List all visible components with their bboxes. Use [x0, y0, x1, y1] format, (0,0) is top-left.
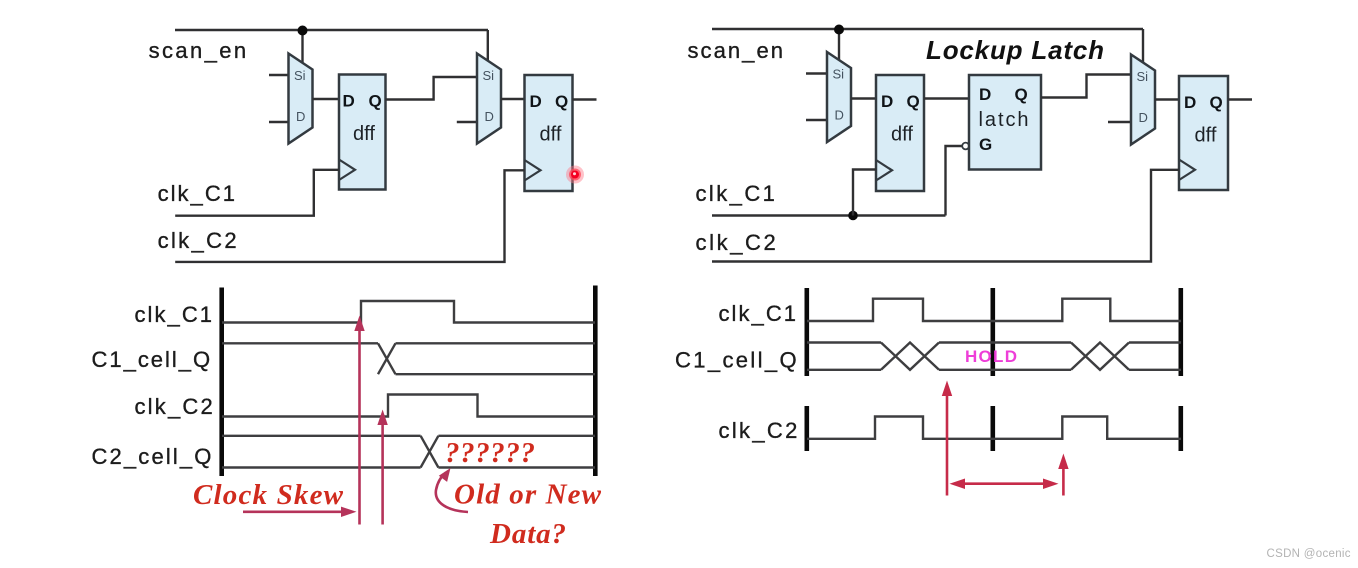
- svg-text:D: D: [296, 109, 305, 124]
- wire D input stub U8: [1108, 121, 1131, 123]
- node scan_en junction (right): [834, 25, 844, 35]
- waveform clk_C1 (right): [807, 299, 1181, 321]
- timeline bar right: [593, 286, 598, 477]
- svg-text:Q: Q: [369, 92, 382, 111]
- node clk_C1 junction: [848, 211, 858, 221]
- wire U8 output to U9 D: [1155, 98, 1179, 100]
- svg-text:Q: Q: [555, 92, 568, 111]
- svg-text:D: D: [530, 92, 542, 111]
- svg-text:Old or New: Old or New: [454, 479, 602, 511]
- mux U1: [289, 54, 313, 144]
- waveform C1_cell_Q rails segment 3: [1129, 343, 1181, 370]
- timeline bar left bottom: [804, 406, 809, 451]
- svg-text:dff: dff: [540, 124, 562, 146]
- arrow skew at clk_C1 edge: [354, 316, 364, 525]
- svg-text:latch: latch: [979, 109, 1029, 131]
- svg-text:C2_cell_Q: C2_cell_Q: [92, 444, 212, 469]
- wire latch Q to mux U8 Si: [1041, 75, 1131, 98]
- waveform C1_cell_Q new value rails: [396, 343, 596, 374]
- svg-text:Si: Si: [483, 68, 495, 83]
- svg-text:Lockup Latch: Lockup Latch: [926, 35, 1104, 65]
- svg-text:D: D: [881, 92, 893, 111]
- svg-text:Data?: Data?: [489, 518, 566, 550]
- timeline bar left: [219, 288, 224, 477]
- svg-text:HOLD: HOLD: [965, 347, 1017, 366]
- wire U3 output to U4 D: [501, 98, 525, 100]
- wire U1 output to U2 D: [313, 98, 340, 100]
- arrow clock skew horizontal: [243, 507, 357, 517]
- timeline bar right bottom: [1179, 406, 1184, 451]
- arrow hold short vertical: [1058, 454, 1068, 496]
- waveform C1_cell_Q transition X: [378, 343, 396, 374]
- wire D input stub U5: [806, 119, 827, 121]
- wire clk_C1 rail (right): [712, 214, 946, 216]
- dff U2: [339, 75, 386, 190]
- svg-text:dff: dff: [1195, 125, 1217, 147]
- svg-text:D: D: [835, 108, 844, 123]
- mux U5: [827, 52, 851, 142]
- arrow skew at clk_C2 edge: [377, 410, 387, 525]
- svg-text:D: D: [979, 85, 991, 104]
- wire select drop to mux U8: [1142, 29, 1144, 63]
- dff U9: [1179, 76, 1228, 190]
- waveform C1_cell_Q double X group 1: [881, 343, 939, 370]
- svg-text:Si: Si: [294, 68, 306, 83]
- arrow hold span horizontal: [950, 479, 1059, 490]
- wire U5 output to U6 D: [851, 97, 876, 99]
- dff U6: [876, 75, 924, 191]
- wire select drop to mux U3: [487, 30, 489, 62]
- arrow curved to ??????: [436, 468, 468, 512]
- wire Si input stub U5: [806, 72, 827, 74]
- probe glow dot on U4: [566, 166, 584, 184]
- timeline bar right top: [1179, 288, 1184, 376]
- bubble latch G input: [962, 143, 969, 150]
- wire Si input stub U1: [269, 74, 289, 76]
- waveform clk_C1 (left): [222, 301, 595, 323]
- waveform C1_cell_Q double X group 2: [1071, 343, 1129, 370]
- wire D input stub U1: [269, 121, 289, 123]
- svg-text:dff: dff: [353, 123, 375, 145]
- wire U9 Q output stub: [1228, 98, 1252, 100]
- mux U3: [477, 54, 501, 144]
- latch U7: [969, 75, 1041, 170]
- svg-text:CSDN @ocenic: CSDN @ocenic: [1267, 548, 1351, 560]
- svg-text:scan_en: scan_en: [688, 38, 784, 63]
- svg-text:Q: Q: [1210, 93, 1223, 112]
- svg-text:D: D: [1139, 110, 1148, 125]
- timeline bar left top: [804, 288, 809, 376]
- svg-text:D: D: [343, 92, 355, 111]
- svg-text:Q: Q: [907, 92, 920, 111]
- timeline bar mid bottom: [990, 406, 995, 451]
- wire scan_en top rail (right): [712, 28, 1143, 30]
- wire select drop to mux U1: [301, 30, 303, 63]
- wire clk_C1 to U2 clock: [175, 170, 339, 216]
- mux U8: [1131, 55, 1155, 145]
- timeline bar mid top: [990, 288, 995, 376]
- wire D input stub U3: [457, 121, 477, 123]
- waveform C2_cell_Q transition X: [421, 436, 439, 468]
- svg-text:G: G: [979, 135, 992, 154]
- wire U4 Q output stub: [573, 98, 597, 100]
- dff U4: [525, 75, 573, 191]
- waveform C2_cell_Q rails before X: [222, 436, 421, 468]
- svg-text:C1_cell_Q: C1_cell_Q: [92, 347, 211, 372]
- waveform clk_C2 (left): [222, 395, 595, 417]
- svg-text:Q: Q: [1015, 85, 1028, 104]
- waveform clk_C2 (right): [807, 417, 1181, 439]
- arrow hold long vertical: [942, 381, 952, 496]
- svg-text:dff: dff: [891, 124, 913, 146]
- waveform C1_cell_Q old value line: [222, 342, 378, 344]
- svg-text:scan_en: scan_en: [149, 38, 247, 63]
- wire clk_C1 to U6 clock: [853, 170, 876, 216]
- wire clk_C2 to U4 clock: [175, 170, 524, 262]
- svg-text:Si: Si: [833, 67, 845, 82]
- wire scan_en top rail (left): [175, 29, 488, 31]
- waveform C2_cell_Q rails after X: [438, 436, 595, 468]
- wire select drop to mux U5: [838, 29, 840, 61]
- wire U6 Q to latch D: [924, 97, 969, 99]
- svg-text:Si: Si: [1137, 69, 1149, 84]
- waveform C1_cell_Q hold rails: [939, 343, 1071, 370]
- wire clk_C1 to latch G: [946, 146, 963, 216]
- svg-text:D: D: [1184, 93, 1196, 112]
- svg-text:D: D: [485, 109, 494, 124]
- wire clk_C2 to U9 clock: [712, 170, 1179, 262]
- wire U2 Q to mux U3 Si: [386, 77, 478, 100]
- svg-text:??????: ??????: [445, 437, 535, 469]
- node scan_en junction (left): [298, 26, 308, 36]
- waveform C1_cell_Q rails segment 1: [807, 343, 881, 370]
- svg-text:Clock Skew: Clock Skew: [193, 479, 344, 511]
